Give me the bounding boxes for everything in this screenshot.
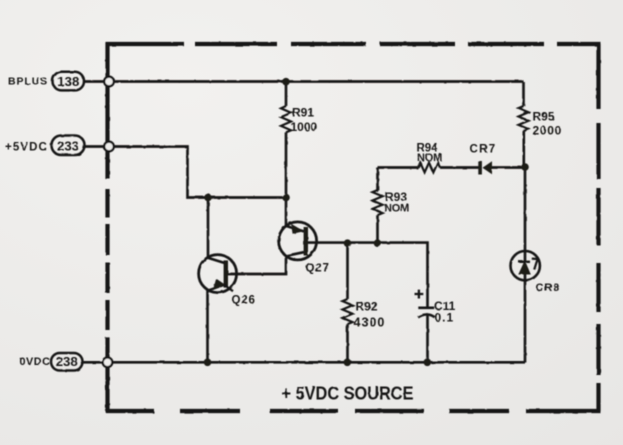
zener diode CR8: [511, 251, 540, 280]
junction node base/R92: [344, 239, 352, 247]
wire CR8 column: [524, 167, 527, 363]
wire Q27 base to C11 corner: [308, 243, 428, 307]
svg-text:CR7: CR7: [470, 144, 497, 156]
resistor R94: [418, 163, 440, 173]
svg-text:NOM: NOM: [384, 203, 409, 215]
resistor R91: [281, 82, 291, 198]
svg-text:NOM: NOM: [417, 152, 442, 164]
svg-text:+ 5VDC SOURCE: + 5VDC SOURCE: [282, 383, 414, 404]
boundary crossing circle +5VDC: [104, 142, 114, 152]
svg-text:2000: 2000: [533, 123, 563, 137]
svg-text:+5VDC: +5VDC: [5, 141, 48, 153]
svg-text:0VDC: 0VDC: [20, 356, 51, 368]
svg-text:Q26: Q26: [232, 295, 256, 307]
junction node R95/CR7/CR8: [521, 163, 529, 171]
transistor Q27: [279, 198, 317, 260]
wire Q26 base to Q27 collector: [228, 256, 286, 274]
svg-text:CR8: CR8: [536, 282, 560, 294]
svg-text:4300: 4300: [354, 315, 386, 329]
terminal 0VDC 238: [51, 353, 83, 371]
junction node +5VDC/Q26 collector: [204, 194, 212, 202]
junction node +5VDC/R91/Q27 emitter: [282, 194, 290, 202]
junction node 0VDC/Q26 emitter: [204, 359, 212, 367]
junction node 0VDC/R92: [344, 359, 352, 367]
enclosure dashed border left: [105, 42, 109, 411]
svg-text:238: 238: [56, 354, 78, 369]
svg-text:BPLUS: BPLUS: [8, 76, 48, 88]
svg-text:233: 233: [57, 138, 79, 153]
svg-text:R91: R91: [292, 106, 314, 120]
diode CR7: [478, 161, 525, 175]
svg-text:1000: 1000: [291, 120, 318, 134]
junction node BPLUS/R91: [282, 78, 290, 86]
boundary crossing circle 0VDC: [103, 358, 113, 368]
svg-text:R92: R92: [356, 300, 378, 314]
wire BPLUS horizontal: [84, 80, 524, 83]
svg-text:Q27: Q27: [306, 263, 330, 275]
wire R93 node to R94: [378, 166, 419, 169]
enclosure dashed border bottom: [106, 409, 601, 413]
junction node base/R93: [374, 239, 382, 247]
wire +5VDC feed: [85, 147, 286, 198]
svg-text:0.1: 0.1: [435, 311, 455, 325]
transistor Q26: [199, 198, 237, 363]
junction node 0VDC/C11: [424, 359, 432, 367]
enclosure dashed border top: [106, 42, 601, 46]
terminal BPLUS 138: [53, 72, 85, 91]
terminal +5VDC 233: [52, 136, 85, 156]
resistor R92: [343, 243, 353, 362]
capacitor C11: [415, 290, 435, 363]
boundary crossing circle BPLUS: [104, 77, 114, 87]
svg-text:138: 138: [57, 74, 79, 89]
resistor R93: [373, 168, 383, 244]
resistor R95: [519, 82, 529, 167]
svg-text:R95: R95: [533, 109, 555, 123]
wire R94 to CR7: [440, 166, 479, 169]
enclosure dashed border right: [596, 44, 600, 411]
wire 0VDC horizontal: [82, 361, 525, 364]
